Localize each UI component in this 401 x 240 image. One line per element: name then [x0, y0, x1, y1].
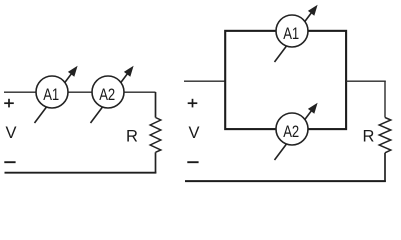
- wire: mid horizontal to resistor: [346, 80, 386, 82]
- wire: resistor branch bottom stub: [384, 153, 386, 182]
- wire: left bottom horizontal: [5, 172, 157, 174]
- label minus (right source): [187, 161, 198, 163]
- svg-text:A1: A1: [283, 24, 299, 43]
- wire: right terminal horizontal: [184, 80, 226, 82]
- ammeter A2 (left): [91, 63, 137, 123]
- ammeter A2 (right, bottom branch): [275, 100, 321, 160]
- wire: left top horizontal: [4, 91, 156, 93]
- label + (left source): [4, 102, 14, 104]
- wire: left right-side vertical bottom stub: [155, 152, 157, 173]
- wire: resistor branch top stub: [384, 81, 386, 117]
- svg-text:R: R: [126, 128, 138, 146]
- wire: parallel loop rectangle: [225, 31, 346, 129]
- wire: left right-side vertical top stub: [155, 92, 157, 118]
- ammeter A1 (right, top branch): [275, 2, 321, 62]
- svg-text:A2: A2: [283, 122, 299, 141]
- svg-text:V: V: [188, 124, 199, 142]
- label minus (left source): [4, 161, 15, 163]
- svg-text:R: R: [363, 128, 375, 146]
- svg-text:V: V: [5, 124, 16, 142]
- ammeter A1 (left): [35, 63, 81, 123]
- resistor R (right): [379, 118, 391, 153]
- wire: right bottom horizontal: [185, 180, 386, 182]
- svg-text:A1: A1: [43, 85, 59, 104]
- label + (right source): [188, 102, 198, 104]
- svg-text:A2: A2: [99, 85, 115, 104]
- resistor R (left): [150, 118, 161, 153]
